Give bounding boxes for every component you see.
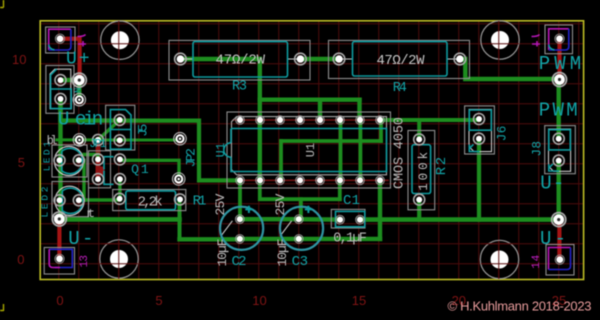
mounting hole top-right bbox=[481, 21, 519, 59]
via JP2 pin1 bbox=[174, 133, 186, 145]
C2 diagonal polarity stroke bbox=[221, 221, 233, 236]
lug Loet2 magenta square bbox=[549, 29, 569, 50]
lug Loet3 pad bbox=[55, 254, 64, 263]
R2 courtyard bbox=[408, 131, 435, 210]
wire bus to IC pad7 top bbox=[357, 100, 361, 120]
wire top bus above IC bbox=[260, 97, 360, 101]
svg-text:U1: U1 bbox=[215, 143, 228, 157]
wire left rail: connector pin2 through LED1 LED2 pads to via bbox=[58, 100, 62, 219]
wire R4 pad2 right and down to via row bbox=[460, 59, 559, 79]
R1 pad2 bbox=[175, 194, 186, 205]
svg-text:PWM: PWM bbox=[539, 53, 582, 75]
wire JP1 jumper blob (red) bbox=[96, 167, 105, 176]
svg-text:J5: J5 bbox=[136, 124, 151, 137]
wire C3+ to C1 pad1 bbox=[299, 217, 340, 222]
wire bus via LED2 to x179 bbox=[61, 217, 180, 222]
wire C3- to gnd vertical bbox=[299, 237, 380, 241]
R4 silk body bbox=[353, 42, 448, 76]
J5 pin1 bbox=[114, 114, 125, 125]
R4 pad1 bbox=[333, 53, 345, 65]
LED1 pad cathode bbox=[73, 155, 84, 166]
wire via to U- lug bottom-left (red) bbox=[57, 221, 61, 258]
LED1 courtyard bbox=[52, 145, 87, 177]
svg-text:5: 5 bbox=[18, 155, 25, 170]
svg-text:U ein: U ein bbox=[58, 109, 104, 131]
J8 body outline bbox=[549, 129, 571, 171]
svg-text:C1: C1 bbox=[343, 193, 360, 209]
C1 silk body bbox=[336, 211, 365, 226]
sheet corner mark top-left bbox=[0, 0, 4, 8]
svg-text:2,2k: 2,2k bbox=[138, 195, 163, 211]
lug Loet4 courtyard bottom-right bbox=[546, 245, 574, 276]
U1 body outline bbox=[232, 117, 387, 175]
LED2 courtyard bbox=[52, 182, 89, 217]
wire via to solder pin below bbox=[77, 81, 81, 100]
via JP2 pin2 bbox=[173, 173, 185, 185]
airwire row along U1 bottom pads bbox=[233, 179, 388, 181]
R3 pad2 bbox=[295, 53, 307, 65]
connector J1 courtyard top-left bbox=[46, 66, 74, 114]
R2 pad1 bbox=[414, 134, 425, 145]
svg-text:47Ω/2W: 47Ω/2W bbox=[377, 53, 426, 69]
mounting hole bottom-right bbox=[480, 240, 518, 278]
wire J5 pin1 to vertical drop at x199 bbox=[120, 121, 238, 181]
lug Loet1 blue edge bbox=[49, 29, 71, 50]
wire R3 pad2 to R4 pad1 bbox=[300, 57, 339, 61]
lug Loet3 magenta edge bbox=[49, 249, 60, 267]
svg-text:5: 5 bbox=[155, 293, 162, 308]
svg-text:N: N bbox=[74, 88, 84, 93]
lug Loet2 blue edge bbox=[549, 29, 569, 50]
svg-text:rt: rt bbox=[86, 207, 95, 221]
C3 diagonal polarity stroke bbox=[280, 221, 292, 236]
svg-text:U +: U + bbox=[66, 50, 90, 70]
Q1 silk bracket bbox=[104, 157, 114, 185]
lug Loet1 magenta square bbox=[49, 29, 71, 50]
J5 pin2 bbox=[114, 135, 125, 146]
solder pin below U+ via bbox=[73, 94, 85, 106]
connector J1 body outline bbox=[50, 69, 71, 109]
R3 silk body bbox=[193, 42, 288, 77]
R1 pad1 bbox=[114, 193, 125, 204]
wire IC internal horizontal bbox=[281, 139, 381, 143]
C1 pad1 bbox=[336, 215, 345, 224]
wire PWM pad to via (red) bbox=[557, 40, 561, 78]
svg-text:U -: U - bbox=[540, 228, 566, 250]
lug Loet2 pad bbox=[555, 34, 564, 43]
wire R1 pad2 down to gnd bus bbox=[178, 200, 182, 239]
JP1 pad top bbox=[93, 134, 104, 145]
sheet corner mark bottom-left bbox=[0, 304, 4, 311]
wire IC pad6 top to pad6 bottom vertical bbox=[339, 120, 343, 180]
lug Loet2 cyan corner arc bbox=[549, 45, 555, 50]
wire J8 pin2 down to via bbox=[557, 161, 561, 218]
wire J6 pin2 down to bus bbox=[477, 139, 481, 220]
lug Loet3 blue square bbox=[49, 249, 72, 267]
via U- bottom-right bbox=[552, 213, 566, 227]
lug Loet1 pad bbox=[55, 34, 64, 43]
wire R2 pad1 up to pwm trace bbox=[417, 120, 421, 139]
U1 silk outline with pin1 notch bbox=[224, 129, 387, 172]
svg-text:0: 0 bbox=[17, 252, 24, 267]
U1 pin row bottom bbox=[236, 176, 245, 185]
LED1 circle bbox=[54, 146, 83, 175]
lug Loet1 pin1 magenta glyph bbox=[78, 35, 87, 47]
via PWM top-right bbox=[553, 73, 567, 87]
R1 courtyard bbox=[113, 190, 186, 211]
wire IC pad3 bottom vertical bbox=[279, 141, 283, 180]
C1 courtyard bbox=[331, 209, 365, 228]
lug Loet4 magenta square bbox=[549, 248, 571, 270]
wire R3 pad1 to center tap bbox=[180, 57, 259, 61]
connector J1 pin1 bbox=[55, 75, 66, 86]
svg-text:10: 10 bbox=[252, 293, 266, 308]
svg-text:J6: J6 bbox=[496, 126, 510, 142]
JP1 pad bottom bbox=[93, 174, 104, 185]
wire stub left of bl via bbox=[57, 138, 80, 141]
mounting hole top-left bbox=[101, 21, 139, 59]
svg-text:PWM: PWM bbox=[539, 99, 578, 121]
LED2 pad anode bbox=[54, 195, 65, 206]
wire U ein pad down and right to J5 pin1 bbox=[61, 100, 120, 121]
J6 pin2 bbox=[474, 133, 485, 144]
svg-text:10µF: 10µF bbox=[215, 239, 230, 267]
wire LED1 pad2 to LED2 pad2 link bbox=[77, 160, 84, 200]
R4 pad links bbox=[339, 58, 460, 60]
U1 courtyard bbox=[227, 112, 391, 188]
wire Q1 bottom pad to R1 pad1 bbox=[118, 180, 122, 199]
C2 pad plus bbox=[236, 215, 245, 224]
LED2 silk arc bbox=[62, 188, 83, 213]
svg-text:R3: R3 bbox=[232, 80, 247, 95]
wire IC pad2 bottom to C3+ jog bbox=[260, 180, 340, 199]
C3 pad minus bbox=[295, 235, 304, 244]
wire via to U- lug bottom-right (red) bbox=[557, 222, 561, 259]
wire Q1 pad to via JP2 lower bbox=[121, 160, 179, 176]
svg-text:10µF: 10µF bbox=[275, 239, 290, 267]
wire jog down to C3+ bbox=[299, 199, 303, 217]
svg-text:47Ω/2W: 47Ω/2W bbox=[216, 52, 266, 68]
svg-text:13: 13 bbox=[79, 255, 91, 268]
R4 courtyard bbox=[329, 40, 470, 78]
C2 pad minus bbox=[236, 235, 245, 244]
J8 courtyard bbox=[545, 126, 576, 174]
wire C2- to C3- bbox=[240, 237, 299, 241]
svg-text:CMOS 4050: CMOS 4050 bbox=[393, 117, 408, 189]
Q1 pad right-bottom bbox=[114, 174, 125, 185]
svg-text:R4: R4 bbox=[393, 81, 407, 96]
lug Loet2 pin1 magenta glyph bbox=[532, 35, 541, 47]
wire row y140: via to JP1 top pad bbox=[80, 138, 98, 141]
svg-text:Q1: Q1 bbox=[131, 162, 149, 177]
board outline bbox=[40, 21, 583, 280]
R1 silk body bbox=[126, 191, 176, 210]
svg-text:bl: bl bbox=[47, 134, 58, 148]
svg-text:15: 15 bbox=[352, 293, 366, 308]
J6 pin1 bbox=[474, 114, 485, 125]
svg-text:JP1: JP1 bbox=[89, 138, 107, 151]
lug Loet1 courtyard top-left bbox=[46, 27, 75, 53]
J6 silk body bbox=[469, 110, 491, 152]
LED2 pad cathode bbox=[73, 195, 84, 206]
C2 silk circle bbox=[220, 207, 263, 250]
wire U1 pad1 bottom down to C2+ bbox=[238, 180, 242, 219]
R4 pad2 bbox=[454, 53, 466, 65]
lug Loet1 cyan corner arc bbox=[49, 45, 55, 50]
R3 pad links bbox=[180, 58, 300, 60]
U1 pin row top bbox=[236, 116, 245, 125]
svg-text:U -: U - bbox=[68, 228, 93, 250]
svg-text:25V: 25V bbox=[273, 193, 288, 215]
wire bus to IC pad5 top bbox=[318, 100, 322, 120]
svg-text:© H.Kuhlmann 2018-2023: © H.Kuhlmann 2018-2023 bbox=[448, 299, 592, 314]
J8 pin1 bbox=[553, 133, 564, 144]
wire IC pad8 top to J6 pin1 bbox=[380, 118, 479, 122]
svg-text:14: 14 bbox=[531, 254, 543, 268]
wire LED link to Q1 pad bbox=[84, 155, 98, 160]
wire gnd vertical to IC pad8 bottom bbox=[378, 180, 382, 239]
svg-text:U1: U1 bbox=[304, 143, 318, 157]
svg-text:R2: R2 bbox=[434, 157, 450, 175]
svg-text:J8: J8 bbox=[531, 141, 545, 157]
wire via to J8 pin1 bbox=[557, 80, 561, 139]
svg-text:25V: 25V bbox=[213, 193, 228, 215]
wire IC pad8 top vertical bbox=[379, 120, 383, 141]
grid overlay across mounting holes bbox=[100, 21, 519, 279]
wire x179 to C2 minus pad bbox=[180, 237, 240, 241]
JP1 pad mid / Q1 pad bbox=[93, 154, 104, 165]
connector J1 pin2 bbox=[55, 93, 66, 104]
svg-text:JP2: JP2 bbox=[183, 148, 198, 167]
svg-text:C3: C3 bbox=[292, 254, 308, 270]
J6 courtyard bbox=[465, 106, 495, 154]
via bl bbox=[73, 134, 85, 146]
wire U+ pad to via (green) bbox=[63, 78, 79, 82]
svg-text:0: 0 bbox=[56, 293, 63, 308]
R2 pad2 bbox=[414, 194, 425, 205]
C2 plus mark bbox=[245, 206, 252, 213]
wire C1 pad2 to via right long bus bbox=[360, 217, 559, 222]
svg-text:R1: R1 bbox=[193, 193, 207, 209]
via U+ bbox=[72, 73, 86, 87]
wire IC pad6 bottom into jog bbox=[338, 180, 342, 199]
C3 silk circle bbox=[280, 207, 323, 250]
mounting hole bottom-left bbox=[100, 240, 138, 278]
wire C2+ to C3+ bbox=[240, 217, 299, 221]
LED1 pad anode bbox=[54, 155, 65, 166]
J5 courtyard bbox=[106, 105, 135, 150]
wire center tap down through IC pad2 top to pad2 bottom bbox=[258, 59, 262, 180]
Q1 pad right-top bbox=[114, 154, 125, 165]
svg-text:U -: U - bbox=[540, 173, 564, 195]
C3 pad plus bbox=[295, 215, 304, 224]
svg-text:0,1µF: 0,1µF bbox=[333, 232, 367, 247]
svg-text:10: 10 bbox=[12, 52, 26, 67]
svg-text:C2: C2 bbox=[232, 254, 247, 270]
J8 pin2 bbox=[553, 155, 564, 166]
wire row y140: JP1 top pad to J5 pin2 to via JP2 bbox=[98, 139, 180, 142]
LED2 circle bbox=[55, 186, 84, 215]
wire JP1 solder-jumper column (red) bbox=[96, 140, 101, 179]
J6 body outline bbox=[469, 109, 492, 151]
wire U+ pad to via (top copper red) bbox=[61, 39, 80, 78]
wire LED2 pad2 to R1 pad1 bbox=[79, 198, 120, 202]
J5 silk body bbox=[110, 110, 131, 150]
lug Loet4 blue edge bbox=[549, 248, 571, 270]
C3 plus mark bbox=[305, 206, 312, 213]
LED1 silk arc bbox=[62, 148, 83, 173]
wire R2 pad2 down to bus bbox=[417, 200, 421, 220]
C1 pad2 bbox=[356, 215, 365, 224]
R3 pad1 bbox=[175, 53, 187, 65]
airwire row along U1 top pads bbox=[233, 119, 388, 121]
wire diagonal J5 pin1 to JP1 top pad bbox=[98, 120, 120, 140]
via U- bottom-left bbox=[52, 212, 66, 226]
J8 silk body bbox=[549, 130, 571, 171]
connector J1 silk lower body bbox=[51, 69, 72, 108]
Q1/JP1 area courtyard bbox=[89, 151, 111, 188]
lug Loet2 courtyard top-right bbox=[545, 25, 573, 54]
lug Loet3 courtyard bottom-left bbox=[44, 248, 74, 275]
R3 courtyard bbox=[169, 40, 310, 80]
R2 silk body bbox=[412, 145, 431, 194]
wire IC pad7 top to pad7 bottom vertical bbox=[358, 120, 362, 180]
lug Loet4 pad bbox=[555, 255, 564, 264]
